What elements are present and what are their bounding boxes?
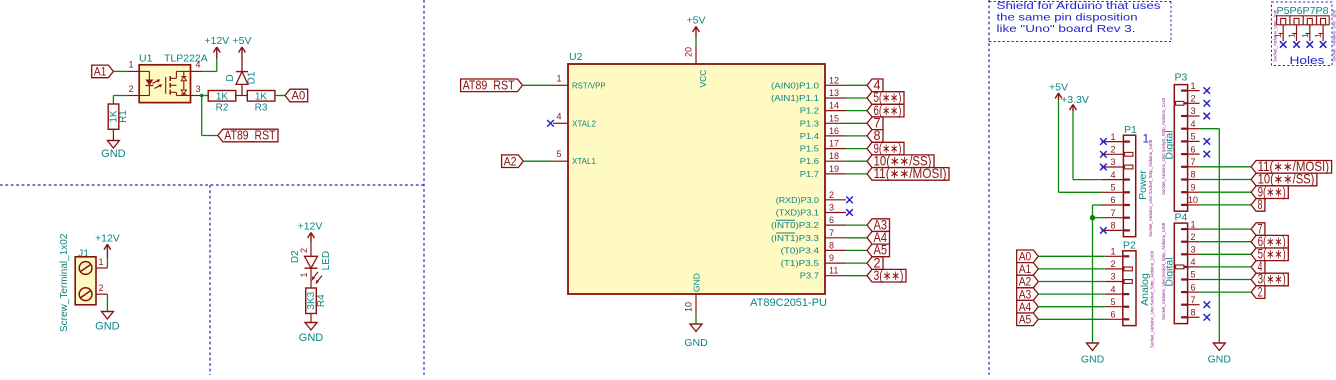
svg-text:+5V: +5V [233,35,252,47]
wire R2 to R3 [236,95,248,97]
global label 7 at P4 [1251,221,1265,236]
no-connect at P4 pin 7 [1204,301,1211,308]
svg-text:6: 6 [1110,195,1115,205]
wire pin3 to R2 [202,95,209,97]
hole P6 pin 1 [1287,25,1297,41]
P3 pin 7 [1181,157,1200,167]
U2 pin 8 (T0)P3.4 [781,240,846,255]
svg-text:P1.5: P1.5 [800,144,819,154]
P2 pin 1 [1105,247,1130,257]
svg-text:TLP222A: TLP222A [164,53,208,65]
svg-text:VCC: VCC [698,70,708,88]
no-connect at P3 pin 3 [1204,113,1211,120]
wire +5V to P1 pin 5 [1059,100,1102,192]
no-connect at P1 pin 3 [1100,164,1107,171]
global label AT89_RST (at U2) [461,79,523,93]
P3 pin 1 [1181,81,1200,91]
section divider vertical mid-left [423,0,425,375]
P2 pin 2 [1105,259,1133,271]
wire A3 to P2 pin 4 [1038,293,1105,295]
svg-text:5: 5 [1190,132,1195,142]
P2 pin 6 [1105,310,1130,320]
optocoupler U1 photomos pair [166,71,191,95]
holes dashed box [1272,2,1333,66]
svg-text:+5V: +5V [687,15,706,27]
no-connect at P3 pin 5 [1204,138,1211,145]
svg-text:2: 2 [98,283,103,293]
no-connect at hole P6 [1293,41,1300,48]
J1 pin 2 [96,283,107,294]
svg-text:7: 7 [1190,295,1195,305]
U2 pin 12 (AIN0)P1.0 [771,75,846,90]
svg-text:3: 3 [1110,157,1115,167]
svg-text:1: 1 [299,272,309,277]
global label 5(**) [867,90,904,105]
svg-text:8: 8 [1190,308,1195,318]
svg-text:18: 18 [829,151,839,161]
ground GND at R4 [299,323,324,345]
svg-text:R3: R3 [255,103,268,114]
power +5V at U2 [687,15,706,38]
svg-text:RST/VPP: RST/VPP [572,80,606,90]
wire +12V to D2 anode [310,242,312,256]
svg-text:5: 5 [1190,270,1195,280]
wire R1 to ground [112,129,114,140]
U2 pin 17 P1.5 [800,139,846,154]
svg-text:13: 13 [829,88,839,98]
U2 pin 5 XTAL1 [553,149,596,166]
svg-text:LED: LED [321,251,332,270]
P1 pin 1 [1102,132,1130,142]
svg-text:Socket_Arduino_Uno_1pin: Socket_Arduino_Uno_1pin [1272,9,1277,62]
svg-text:U1: U1 [139,53,153,65]
wire P4 pin 3 to label 5(**) [1200,253,1252,255]
global label A2 at P2 [1017,275,1039,289]
global label A4 at P2 [1017,300,1039,314]
hole P5 pin 1 [1273,25,1283,41]
P1 pin 2 [1102,145,1133,157]
no-connect at (TXD)P3.1 [846,209,853,216]
svg-text:2: 2 [1258,284,1263,299]
P3 pin 2 [1176,94,1200,106]
wire P4 pin 6 to label 2 [1200,291,1252,293]
wire D2 cathode to R4 [310,268,312,288]
svg-text:11: 11 [829,266,838,276]
wire R3 to A0 [275,95,285,97]
P3 pin 5 [1181,132,1200,142]
wire R4 to ground [310,314,312,323]
wire P3 pin 7 to label 11(**/MOSI) [1200,166,1252,168]
P3 pin 3 [1181,106,1200,116]
section divider horizontal left [0,184,424,186]
svg-text:Socket_Arduino_Uno:Socket_Stri: Socket_Arduino_Uno:Socket_Strip_Arduino_… [1161,97,1166,195]
global label 8 at P3 [1251,197,1265,212]
wire A0 to P2 pin 1 [1038,255,1105,257]
global label A5 at P2 [1017,313,1039,327]
global label A0 at P2 [1017,250,1039,264]
global label 2 at P4 [1251,284,1265,299]
svg-text:A0: A0 [292,89,306,103]
wire P4 pin 2 to label 6(**) [1200,241,1252,243]
no-connect at P3 pin 2 [1204,100,1211,107]
wire A5 to P2 pin 6 [1038,318,1105,320]
svg-text:6: 6 [1190,144,1195,154]
U2 pin 11 P3.7 [800,266,846,281]
wire P3 pin 10 to label 8 [1200,204,1252,206]
svg-text:2: 2 [829,190,834,200]
no-connect at P1 pin 1 [1100,138,1107,145]
global label 6(**) [867,103,904,118]
svg-text:4: 4 [1110,284,1115,294]
svg-text:1: 1 [128,60,133,70]
svg-text:2: 2 [1190,94,1195,104]
global label A5 at U2 [867,243,890,258]
J1 screw 2 [79,288,92,301]
svg-text:P2: P2 [1123,240,1136,252]
P4 pin 3 [1181,245,1200,255]
P3 pin 4 [1181,119,1200,129]
note box outline [989,2,1171,42]
U2 pin 14 P1.2 [800,101,846,116]
P4 pin 5 [1181,270,1200,280]
global label AT89_RST (left) [218,129,278,143]
global label A1 at P2 [1017,262,1039,276]
svg-text:(T0)P3.4: (T0)P3.4 [781,245,820,255]
U2 pin 3 (TXD)P3.1 [776,203,846,218]
junction at U1 pin3 [200,94,204,98]
P4 pin 6 [1181,282,1200,292]
svg-text:5: 5 [1110,297,1115,307]
junction at ground rail [1090,215,1095,220]
wire P4 pin 5 to label 3(**) [1200,279,1252,281]
wire pin 8 to label A5 [846,249,867,251]
svg-text:16: 16 [829,126,839,136]
power +3.3V at P1 [1061,94,1089,111]
wire pin 11 to label 3(**) [846,275,867,277]
svg-text:XTAL1: XTAL1 [572,156,596,166]
svg-text:11(∗∗/MOSI): 11(∗∗/MOSI) [874,166,947,181]
svg-text:2: 2 [1110,145,1115,155]
wire A2 to XTAL1 [523,160,553,162]
wire A1 to U1 pin1 [113,70,128,72]
global label 3(**) at U2 [867,268,906,283]
svg-text:Socket_Arduino_Uno:Socket_Stri: Socket_Arduino_Uno:Socket_Strip_Arduino_… [1148,139,1153,237]
svg-text:+5V: +5V [1049,82,1068,94]
U2 pin 4 XTAL2 [553,111,596,128]
connector J1 body [75,257,96,305]
U2 pin 10 GND [684,273,702,315]
svg-text:Socket_Arduino_Uno:Socket_Stri: Socket_Arduino_Uno:Socket_Strip_Arduino_… [1150,250,1155,348]
hole P7 pin 1 [1300,25,1310,41]
svg-text:Socket_Arduino_Uno:Socket_Stri: Socket_Arduino_Uno:Socket_Strip_Arduino_… [1161,222,1166,320]
svg-text:GND: GND [299,332,324,344]
global label A4 at U2 [867,230,890,245]
wire J1 pin1 to +12V [106,258,108,268]
svg-text:P1.4: P1.4 [800,131,819,141]
power +12V at D2 [298,221,323,243]
global label 3(**) at P4 [1251,272,1288,287]
U2 pin 18 P1.6 [800,151,846,166]
svg-text:8: 8 [1110,221,1115,231]
no-connect at P3 pin 6 [1204,151,1211,158]
wire pin 7 to label A4 [846,237,867,239]
global label A1 [92,65,114,79]
power +12V at J1 [95,233,120,259]
svg-text:P1: P1 [1124,124,1137,136]
svg-text:A1: A1 [94,65,107,79]
ground GND below U2 [684,324,708,349]
global label 11(**/MOSI) at P3 [1251,159,1332,174]
svg-text:P3.7: P3.7 [800,271,819,281]
global label 4 [867,78,883,93]
P4 pin 1 [1181,219,1200,229]
microcontroller U2 body [568,64,825,294]
svg-text:R4: R4 [316,294,327,307]
svg-text:D1: D1 [247,71,258,84]
svg-text:Shield for Arduino that uses: Shield for Arduino that uses [997,1,1161,12]
ground GND below R1 [101,141,126,161]
no-connect at XTAL2 [547,120,554,127]
wire GND pin to ground [695,315,697,324]
svg-text:6: 6 [1190,282,1195,292]
svg-text:+12V: +12V [204,35,229,47]
LED D2 [305,256,323,284]
no-connect at hole P7 [1307,41,1314,48]
no-connect at hole P5 [1280,41,1287,48]
resistor R3 [247,91,275,102]
svg-text:2: 2 [128,84,133,94]
svg-text:1K: 1K [255,92,268,103]
svg-text:GND: GND [101,148,126,160]
svg-text:6: 6 [1110,310,1115,320]
wire AT89_RST to U2 pin1 [523,84,554,86]
svg-text:P1.7: P1.7 [800,169,819,179]
svg-text:1K: 1K [216,92,229,103]
svg-text:(T1)P3.5: (T1)P3.5 [781,258,820,268]
svg-text:3: 3 [1110,272,1115,282]
U1 pin 2 [127,84,139,96]
wire J1 pin2 to ground [106,294,108,311]
global label 6(**) at P4 [1251,234,1288,249]
ground GND at J1 [95,312,120,333]
svg-text:3: 3 [1190,106,1195,116]
svg-text:+12V: +12V [298,221,323,233]
P1 pin 3 [1102,157,1133,169]
power +5V at P1 [1049,82,1068,101]
svg-text:(INT0)P3.2: (INT0)P3.2 [771,220,819,230]
svg-text:9: 9 [829,253,834,263]
svg-text:7: 7 [1190,157,1195,167]
svg-text:1: 1 [1190,81,1195,91]
svg-text:8: 8 [1190,170,1195,180]
wire pin 17 to label 9(**) [846,148,867,150]
svg-text:A5: A5 [1019,313,1032,327]
svg-text:5: 5 [1110,183,1115,193]
connector P1 body [1123,135,1135,237]
U2 pin 20 VCC [684,46,709,88]
svg-text:9: 9 [1190,182,1195,192]
svg-text:P1.2: P1.2 [800,106,819,116]
no-connect at (RXD)P3.0 [846,197,853,204]
holes connector bodies P5-P8 [1277,16,1330,25]
wire pin 9 to label 2 [846,262,867,264]
U2 pin 15 P1.3 [800,113,846,128]
svg-text:XTAL2: XTAL2 [572,118,596,128]
svg-text:AT89_RST: AT89_RST [463,79,515,93]
wire pin 19 to label 11(**/MOSI) [846,173,867,175]
connector P4 body [1174,223,1187,324]
U2 pin 1 RST/VPP [553,73,606,90]
global label 10(**/SS) at P3 [1251,172,1317,187]
P3 pin 9 [1181,182,1200,192]
global label 4 at P4 [1251,259,1265,274]
svg-text:GND: GND [1208,354,1232,366]
wire VCC to +5V [695,37,697,46]
wire P3 pin 4 to ground rail [1200,129,1220,343]
wire ground rail to GND [1092,218,1094,343]
svg-text:7: 7 [1110,208,1115,218]
svg-text:10: 10 [684,302,694,312]
svg-text:Holes: Holes [1290,55,1326,67]
global label A0 [285,89,308,103]
svg-text:19: 19 [829,164,839,174]
svg-text:4: 4 [1190,119,1195,129]
wire P3 pin 9 to label 9(**) [1200,191,1252,193]
svg-text:4: 4 [556,111,561,121]
svg-text:5: 5 [556,149,561,159]
U1 pin 3 [191,84,203,96]
svg-text:12: 12 [829,75,839,85]
wire P4 pin 1 to label 7 [1200,228,1252,230]
U2 pin 9 (T1)P3.5 [781,253,846,268]
wire pin 6 to label A3 [846,224,867,226]
wire P1 pin 6 to ground rail [1093,205,1102,218]
no-connect at P3 pin 1 [1204,87,1211,94]
P1 pin 6 [1102,195,1130,205]
P2 pin 4 [1105,284,1130,294]
svg-text:P3: P3 [1175,72,1188,84]
P3 pin 10 [1181,195,1200,205]
svg-text:Socket_Arduino_Uno_1pin: Socket_Arduino_Uno_1pin [1331,9,1336,62]
global label A2 [502,154,524,168]
svg-text:P1.6: P1.6 [800,156,819,166]
connector P3 body [1174,85,1187,212]
svg-text:(RXD)P3.0: (RXD)P3.0 [776,195,819,205]
svg-text:1: 1 [1110,247,1115,257]
J1 pin 1 [96,257,107,268]
svg-text:GND: GND [1081,354,1105,366]
J1 screw 1 [79,262,92,275]
svg-text:D2: D2 [290,250,301,263]
optocoupler U1 light arrows [152,79,162,88]
svg-text:GND: GND [684,337,708,349]
global label 8 [867,128,883,143]
svg-text:1: 1 [1110,132,1115,142]
svg-text:1: 1 [98,257,103,267]
U2 pin 2 (RXD)P3.0 [776,190,846,205]
resistor R2 [208,91,236,102]
section divider vertical right [988,0,990,375]
wire pin 15 to label 7 [846,122,867,124]
svg-text:1: 1 [556,73,561,83]
global label 9(**) at P3 [1251,184,1288,199]
svg-text:GND: GND [692,273,702,292]
svg-text:Screw_Terminal_1x02: Screw_Terminal_1x02 [59,233,70,332]
svg-text:(AIN1)P1.1: (AIN1)P1.1 [771,93,819,103]
hole P8 pin 1 [1313,25,1323,41]
svg-text:7: 7 [829,228,834,238]
no-connect at P4 pin 8 [1204,314,1211,321]
P1 pin 4 [1102,170,1130,180]
ground GND power rail [1081,343,1105,366]
svg-text:4: 4 [1190,257,1195,267]
svg-text:2: 2 [1190,232,1195,242]
svg-text:(TXD)P3.1: (TXD)P3.1 [776,208,819,218]
resistor R4 [306,288,317,314]
wire pin 12 to label 4 [846,84,867,86]
no-connect at P1 pin 2 [1100,151,1107,158]
svg-text:+12V: +12V [95,233,120,245]
no-connect at hole P8 [1320,41,1327,48]
wire +3.3V to P1 pin 4 [1073,111,1102,180]
wire P3 pin 8 to label 10(**/SS) [1200,179,1252,181]
P1 pin 8 [1102,221,1130,231]
resistor R1 [108,104,119,129]
global label 9(**) [867,141,904,156]
svg-text:17: 17 [829,139,839,149]
svg-text:A2: A2 [504,154,517,168]
wire A2 to P2 pin 3 [1038,281,1105,283]
svg-text:4: 4 [1110,170,1115,180]
P2 pin 5 [1105,297,1130,307]
power +5V top-left [233,35,252,59]
global label 10(**/SS) [867,153,934,168]
P1 pin 7 [1102,208,1130,218]
svg-text:15: 15 [829,113,839,123]
svg-text:(INT1)P3.3: (INT1)P3.3 [771,233,819,243]
svg-text:8: 8 [1258,197,1263,212]
P4 pin 7 [1181,295,1200,305]
svg-text:8: 8 [829,240,834,250]
svg-text:GND: GND [95,321,120,333]
section divider vertical lower-left [209,185,211,375]
wire U1 pin2 down to R1 [113,96,127,105]
svg-text:AT89C2051-PU: AT89C2051-PU [750,297,827,309]
svg-text:3: 3 [1190,245,1195,255]
global label A3 at P2 [1017,287,1039,301]
P1 pin 5 [1102,183,1130,193]
optocoupler U1 internal LED [139,71,153,95]
U2 pin 7 (INT1)P3.3 [771,228,846,243]
U2 pin 16 P1.4 [800,126,846,141]
global label 2 at U2 [867,255,883,270]
P3 pin 6 [1181,144,1200,154]
P4 pin 2 [1181,232,1200,242]
wire P4 pin 4 to label 4 [1200,266,1252,268]
wire pin 16 to label 8 [846,135,867,137]
svg-text:3: 3 [829,203,834,213]
connector P2 body [1123,251,1136,326]
wire pin 14 to label 6(**) [846,110,867,112]
svg-text:3: 3 [196,84,201,94]
global label 7 [867,116,883,131]
svg-text:20: 20 [684,47,694,57]
svg-text:P5P6P7P8: P5P6P7P8 [1277,5,1329,17]
svg-text:P4: P4 [1175,212,1188,224]
U2 pin 6 (INT0)P3.2 [771,215,846,230]
ground GND digital rail [1208,343,1232,366]
no-connect at P1 pin 8 [1100,227,1107,234]
